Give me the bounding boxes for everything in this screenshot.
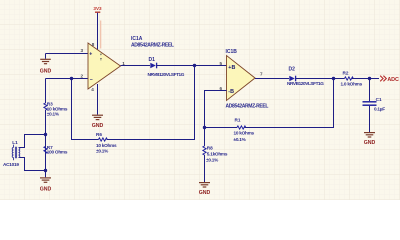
- svg-text:7: 7: [260, 71, 263, 76]
- svg-text:GND: GND: [199, 190, 211, 196]
- svg-text:GND: GND: [40, 187, 52, 193]
- wire R2 to ADC: [352, 78, 379, 80]
- svg-text:10 kOhms: 10 kOhms: [234, 131, 255, 136]
- node junction R1/R8: [203, 126, 206, 129]
- resistor R2: [341, 70, 363, 86]
- wire IC1A pin4: [97, 84, 99, 115]
- node junction R6 feedback: [193, 64, 196, 67]
- svg-text:R2: R2: [343, 70, 349, 75]
- svg-text:C1: C1: [376, 97, 382, 102]
- svg-text:R8: R8: [207, 145, 213, 150]
- svg-text:GND: GND: [92, 123, 104, 129]
- wire R1 feedback: [205, 79, 334, 128]
- svg-text:D1: D1: [149, 57, 156, 63]
- capacitor C1: [363, 97, 386, 111]
- wire IC1B pin6: [205, 91, 227, 147]
- svg-text:IC1B: IC1B: [226, 49, 238, 55]
- node junction C1: [368, 77, 371, 80]
- svg-text:NRVB120VLSFT1G: NRVB120VLSFT1G: [287, 81, 324, 86]
- svg-text:AD8542ARMZ-REEL: AD8542ARMZ-REEL: [131, 42, 174, 48]
- diode D1: [148, 57, 185, 77]
- svg-text:AD8542ARMZ-REEL: AD8542ARMZ-REEL: [226, 104, 269, 110]
- svg-text:GND: GND: [364, 140, 376, 146]
- wire D1 to IC1B pin5: [157, 65, 227, 67]
- svg-text:D2: D2: [289, 67, 296, 73]
- resistor R8: [203, 145, 228, 162]
- node junction R3/L1: [44, 133, 47, 136]
- wire 3V3 to IC1A pin8: [97, 13, 99, 50]
- op-amp U2 IC1B: [227, 56, 256, 101]
- svg-text:10 kOhms: 10 kOhms: [96, 143, 117, 148]
- svg-text:2: 2: [81, 74, 84, 79]
- ground (bottom left): [40, 171, 52, 193]
- wire pin2 down to R3: [45, 79, 47, 104]
- svg-text:1.0 kOhms: 1.0 kOhms: [341, 81, 363, 86]
- wire pin2: [46, 78, 89, 80]
- wire L1 top: [19, 135, 46, 148]
- svg-text:100 Ohms: 100 Ohms: [47, 150, 68, 155]
- port ADC: [380, 76, 399, 83]
- wire R3 to junction: [45, 110, 47, 171]
- svg-text:±0.1%: ±0.1%: [96, 148, 109, 153]
- svg-text:8: 8: [92, 42, 95, 47]
- svg-text:0.1µF: 0.1µF: [374, 106, 385, 111]
- op-amp U1 IC1A: [88, 43, 121, 89]
- node junction R7/L1 bottom: [44, 169, 47, 172]
- ground (C1): [364, 133, 376, 146]
- wire IC1B output to D2: [255, 78, 289, 80]
- inductor L1 (transformer AC1019): [3, 140, 20, 167]
- resistor R6: [96, 132, 117, 153]
- svg-text:+B: +B: [228, 65, 235, 71]
- ground (IC1A pin4): [92, 115, 104, 129]
- svg-text:IC1A: IC1A: [131, 36, 143, 42]
- svg-text:+: +: [89, 51, 92, 57]
- resistor R3: [44, 101, 68, 116]
- svg-text:5: 5: [220, 61, 223, 66]
- svg-text:NRVB120VLSFT1G: NRVB120VLSFT1G: [148, 72, 185, 77]
- svg-text:±0.1%: ±0.1%: [206, 157, 219, 162]
- wire R6 net: pin2 junction down, across, up to output: [72, 66, 195, 140]
- no-ERC salmon marker line: [100, 21, 102, 49]
- wire D2 to R2: [296, 78, 345, 80]
- svg-text:5.1kOhms: 5.1kOhms: [207, 151, 228, 156]
- node junction pin2/R6: [70, 77, 73, 80]
- svg-text:-B: -B: [228, 89, 234, 95]
- ground (left of IC1A pin3): [40, 54, 52, 75]
- wire R8 to ground: [204, 155, 206, 182]
- svg-text:3V3: 3V3: [93, 6, 102, 11]
- ground (R8): [199, 183, 211, 196]
- svg-text:3: 3: [81, 48, 84, 53]
- svg-text:±0.1%: ±0.1%: [47, 112, 60, 117]
- svg-text:AC1019: AC1019: [3, 162, 19, 167]
- resistor R1: [234, 118, 255, 143]
- power port 3V3: [93, 6, 102, 12]
- node junction feedback R1: [332, 77, 335, 80]
- svg-text:4: 4: [91, 87, 94, 92]
- wire C1 bottom: [369, 106, 371, 132]
- svg-text:ADC: ADC: [387, 77, 399, 83]
- resistor R7: [44, 145, 68, 155]
- svg-text:L1: L1: [12, 140, 18, 145]
- svg-text:GND: GND: [40, 69, 52, 75]
- svg-text:R1: R1: [235, 118, 241, 123]
- wire C1 top: [369, 79, 371, 102]
- diode D2: [287, 67, 324, 86]
- wire pin3: [46, 53, 89, 55]
- wire L1 bottom: [19, 158, 46, 171]
- svg-text:−: −: [90, 77, 93, 83]
- wire IC1A output to D1: [121, 65, 151, 67]
- svg-text:±0.1%: ±0.1%: [234, 137, 247, 142]
- svg-text:R6: R6: [96, 132, 102, 137]
